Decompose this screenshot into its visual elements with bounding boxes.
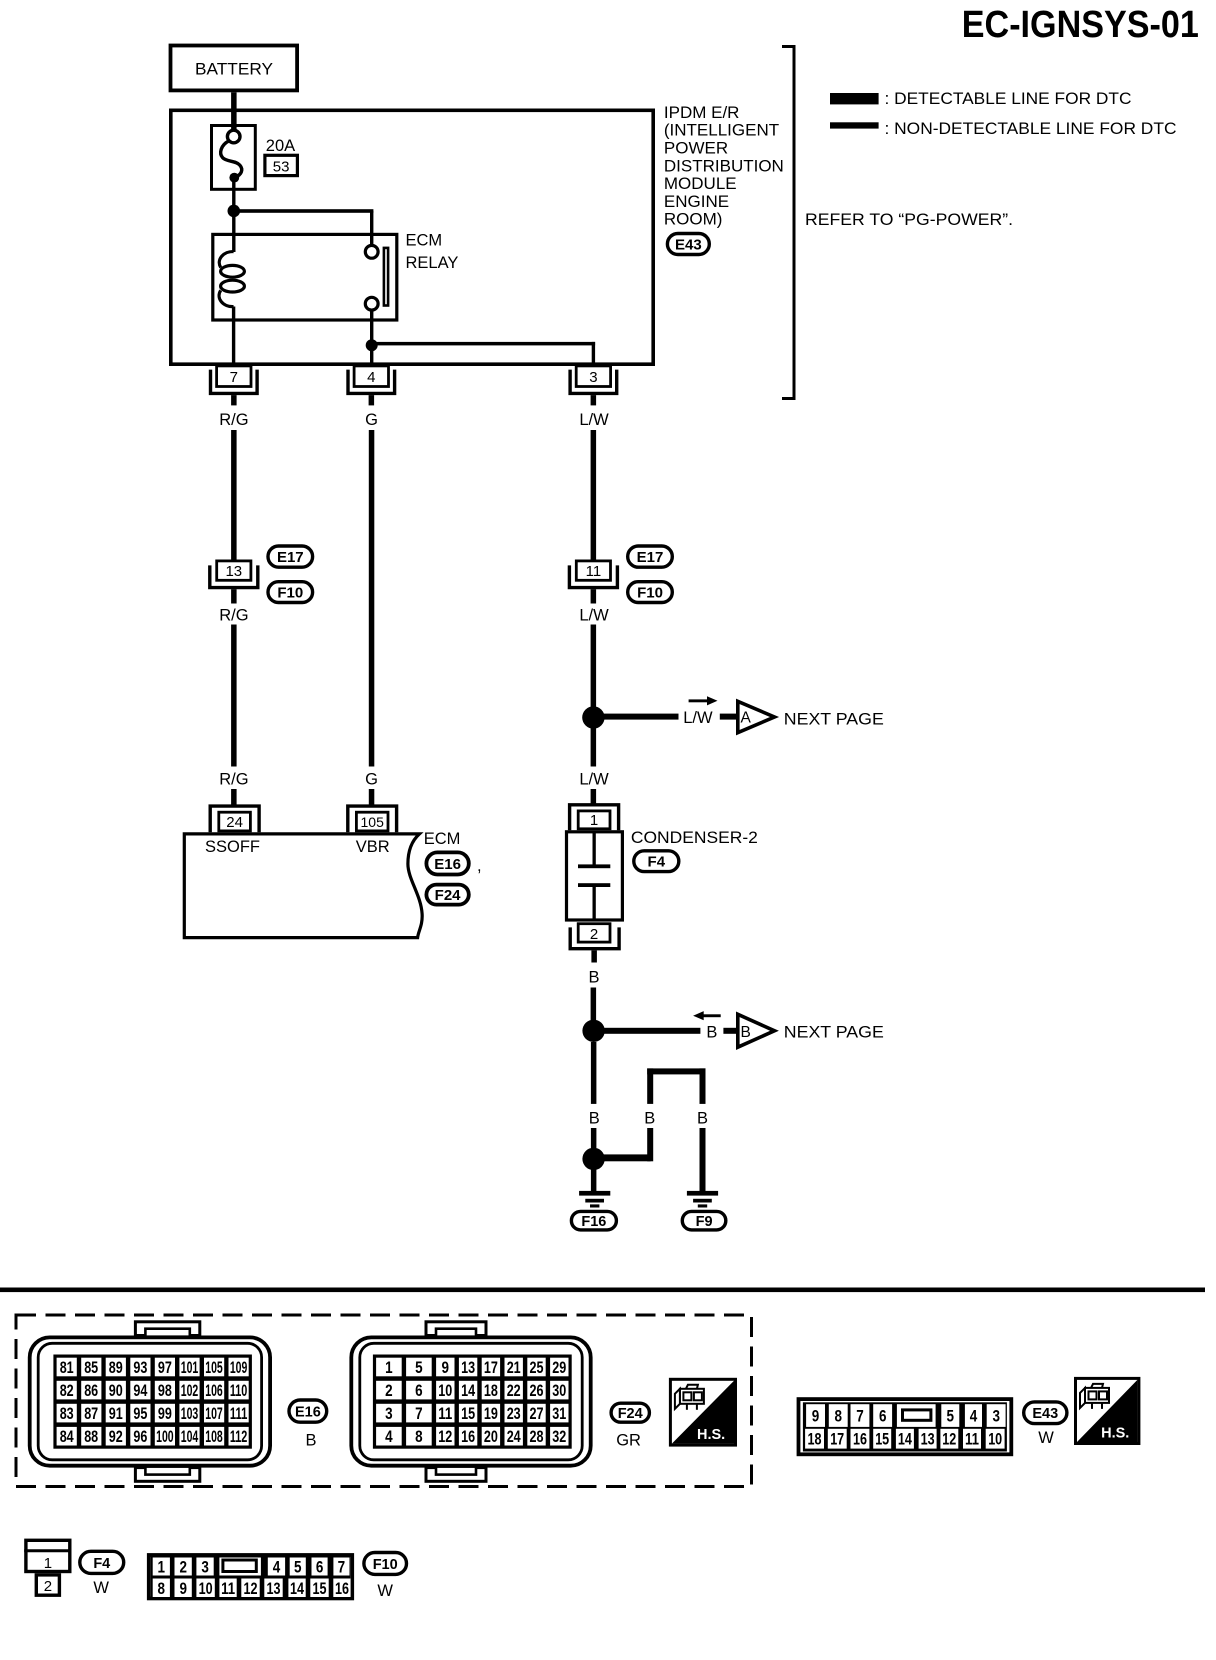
arrow A next page triangle <box>738 701 775 732</box>
connector F9 oval (ground) <box>682 1211 726 1230</box>
svg-text:4: 4 <box>273 1558 281 1577</box>
svg-text:21: 21 <box>507 1358 521 1377</box>
svg-text:F4: F4 <box>93 1556 110 1572</box>
svg-text:95: 95 <box>133 1404 147 1423</box>
wire G pin4 to label (long) <box>369 430 375 767</box>
wire fuse to node J1 <box>232 180 235 211</box>
svg-text:28: 28 <box>530 1427 544 1446</box>
svg-text:REFER TO “PG-POWER”.: REFER TO “PG-POWER”. <box>805 211 1013 229</box>
svg-text:30: 30 <box>552 1381 566 1400</box>
svg-text:F24: F24 <box>435 887 462 904</box>
svg-text:25: 25 <box>530 1358 544 1377</box>
svg-text:24: 24 <box>507 1427 521 1446</box>
connector E43 face (IPDM 18-pin) <box>799 1399 1012 1454</box>
svg-text:27: 27 <box>530 1404 544 1423</box>
connector F10 oval (right) <box>628 582 673 603</box>
node J2 junction dot <box>366 339 378 351</box>
svg-text:9: 9 <box>442 1358 450 1377</box>
svg-text:B: B <box>741 1024 751 1041</box>
svg-text:8: 8 <box>834 1407 842 1426</box>
svg-text:31: 31 <box>552 1404 566 1423</box>
node B junction dot <box>582 1020 604 1042</box>
svg-text:9: 9 <box>812 1407 820 1426</box>
svg-text:13: 13 <box>461 1358 475 1377</box>
pin 7 of IPDM (terminal 7) <box>211 366 258 406</box>
svg-text:1: 1 <box>158 1558 166 1577</box>
relay contact bottom circle <box>365 297 378 310</box>
label IPDM E/R (INTELLIGENT POWER DISTRIBUTION MODULE ENGINE ROOM) <box>664 103 784 229</box>
svg-text:112: 112 <box>230 1427 248 1446</box>
wire J1 to relay contact (horizontal) <box>234 209 374 213</box>
svg-text:F16: F16 <box>581 1214 606 1230</box>
wire stub to arrow A <box>720 714 736 720</box>
svg-text:EC-IGNSYS-01: EC-IGNSYS-01 <box>962 4 1199 46</box>
svg-text:F10: F10 <box>373 1557 398 1573</box>
connector F4 oval (condenser) <box>634 851 679 872</box>
arrow B next page triangle <box>738 1014 775 1047</box>
connector E43 oval (IPDM) <box>667 234 709 255</box>
svg-text:11: 11 <box>965 1430 979 1449</box>
ground F16 symbol <box>579 1191 610 1196</box>
svg-text:NEXT PAGE: NEXT PAGE <box>784 711 884 729</box>
bracket IPDM E/R span <box>782 47 794 399</box>
arrow over L/W (direction) <box>689 699 710 702</box>
wire R/G connector 13 to ECM pin 24 <box>231 625 237 767</box>
wire L/W to condenser pin 1 stub <box>591 789 597 804</box>
connector E17 oval (left) <box>268 546 313 567</box>
connector 11 inline (wire L/W) <box>569 561 617 588</box>
svg-text:E16: E16 <box>295 1405 321 1421</box>
svg-text:107: 107 <box>205 1404 223 1423</box>
svg-text:3: 3 <box>385 1404 393 1423</box>
svg-text:F4: F4 <box>648 854 666 871</box>
legend non-detectable line swatch <box>830 122 879 128</box>
svg-text:109: 109 <box>230 1358 248 1377</box>
svg-text:7: 7 <box>415 1404 423 1423</box>
svg-text:15: 15 <box>461 1404 475 1423</box>
connector F24 oval (ECM) <box>426 885 468 905</box>
svg-text:B: B <box>589 1110 600 1128</box>
svg-text:DISTRIBUTION: DISTRIBUTION <box>664 156 784 175</box>
svg-text:106: 106 <box>205 1381 223 1400</box>
wire relay coil to pin 7 <box>232 307 235 367</box>
svg-text:29: 29 <box>552 1358 566 1377</box>
svg-text:81: 81 <box>60 1358 74 1377</box>
ground F9 symbol <box>687 1191 718 1196</box>
svg-text:1: 1 <box>385 1358 393 1377</box>
svg-text:W: W <box>93 1579 109 1597</box>
svg-text:6: 6 <box>879 1407 887 1426</box>
svg-text:E43: E43 <box>675 236 702 253</box>
node C junction dot <box>582 1148 604 1170</box>
svg-text:H.S.: H.S. <box>697 1427 725 1443</box>
svg-text:4: 4 <box>970 1407 978 1426</box>
svg-text:A: A <box>741 710 752 727</box>
svg-text:NEXT PAGE: NEXT PAGE <box>784 1024 884 1042</box>
svg-text:14: 14 <box>898 1430 912 1449</box>
svg-text:12: 12 <box>438 1427 452 1446</box>
svg-text:ECM: ECM <box>424 830 461 848</box>
svg-text:85: 85 <box>84 1358 98 1377</box>
box ECM (torn right edge) <box>184 834 422 938</box>
svg-text:14: 14 <box>290 1579 304 1598</box>
svg-text:32: 32 <box>552 1427 566 1446</box>
svg-text:83: 83 <box>60 1404 74 1423</box>
svg-text:2: 2 <box>179 1558 187 1577</box>
wire node C to ground F16 <box>591 1159 597 1192</box>
svg-text:W: W <box>377 1582 393 1600</box>
svg-text:1: 1 <box>44 1555 52 1572</box>
connector E16 oval (ECM) <box>426 852 468 874</box>
wire node A to label L/W (horizontal) <box>593 714 678 720</box>
wire J2 to pin 4 <box>370 345 373 366</box>
wire B condenser to node B <box>591 988 597 1031</box>
svg-text:E17: E17 <box>277 549 304 566</box>
svg-text:ENGINE: ENGINE <box>664 192 729 211</box>
relay coil <box>219 252 233 268</box>
svg-text:L/W: L/W <box>579 771 609 789</box>
svg-text:26: 26 <box>530 1381 544 1400</box>
connector F4 face (condenser 2-pin) <box>26 1540 70 1571</box>
pin 1 of condenser-2 <box>570 805 619 830</box>
pin 4 of IPDM (terminal 4) <box>348 366 395 406</box>
svg-text:POWER: POWER <box>664 139 728 158</box>
svg-text:101: 101 <box>181 1358 199 1377</box>
svg-text:2: 2 <box>590 926 598 943</box>
connector E43 oval (view) <box>1024 1402 1067 1424</box>
wire G to pin 105 stub <box>369 789 375 805</box>
svg-text:17: 17 <box>830 1430 844 1449</box>
svg-text:F10: F10 <box>637 585 663 602</box>
svg-text:16: 16 <box>335 1579 349 1598</box>
connector 13 inline (wire R/G) <box>210 561 258 588</box>
wire J2 to pin 3 (horizontal) <box>372 342 595 346</box>
svg-text:8: 8 <box>415 1427 423 1446</box>
svg-text:5: 5 <box>947 1407 955 1426</box>
svg-text:B: B <box>706 1024 717 1042</box>
wire stub to arrow B <box>723 1028 736 1034</box>
svg-text:: DETECTABLE LINE FOR DTC: : DETECTABLE LINE FOR DTC <box>885 90 1132 108</box>
svg-text:110: 110 <box>230 1381 248 1400</box>
svg-text:82: 82 <box>60 1381 74 1400</box>
svg-text:7: 7 <box>230 369 238 386</box>
svg-text:IPDM E/R: IPDM E/R <box>664 103 740 122</box>
connector E16 oval (view) <box>289 1400 327 1422</box>
svg-text:F24: F24 <box>618 1406 643 1422</box>
relay movable contact bar <box>384 248 388 306</box>
relay contact top circle <box>365 245 378 258</box>
connector F24 oval (view) <box>611 1403 649 1422</box>
svg-text:111: 111 <box>230 1404 248 1423</box>
svg-text:B: B <box>697 1110 708 1128</box>
pin 24 of ECM (SSOFF) <box>210 806 259 832</box>
svg-text:15: 15 <box>875 1430 889 1449</box>
svg-text:E16: E16 <box>434 856 461 873</box>
svg-text:96: 96 <box>133 1427 147 1446</box>
svg-text:18: 18 <box>808 1430 822 1449</box>
svg-text:93: 93 <box>133 1358 147 1377</box>
legend detectable line swatch <box>830 93 879 104</box>
wire relay contact to node J2 <box>370 310 373 345</box>
fuse number 53 box <box>265 155 298 175</box>
svg-text:R/G: R/G <box>219 607 248 625</box>
svg-text:53: 53 <box>273 159 290 176</box>
svg-text:H.S.: H.S. <box>1101 1426 1129 1442</box>
svg-text:G: G <box>365 411 378 429</box>
svg-text:14: 14 <box>461 1381 475 1400</box>
svg-text:F10: F10 <box>277 585 303 602</box>
wire R/G below connector 13 stub <box>231 589 237 603</box>
svg-text:12: 12 <box>244 1579 258 1598</box>
svg-text:10: 10 <box>199 1579 213 1598</box>
svg-text:11: 11 <box>438 1404 452 1423</box>
svg-text:108: 108 <box>205 1427 223 1446</box>
svg-text:4: 4 <box>367 369 375 386</box>
icon H.S. (left) <box>670 1379 735 1445</box>
connector E16 face (ECM 81-112) <box>30 1322 270 1481</box>
svg-text:ECM: ECM <box>406 232 443 250</box>
svg-text:23: 23 <box>507 1404 521 1423</box>
svg-text:13: 13 <box>267 1579 281 1598</box>
wire down to relay contact pin <box>370 211 373 246</box>
node J1 junction dot <box>228 205 241 218</box>
svg-text:22: 22 <box>507 1381 521 1400</box>
svg-text:BATTERY: BATTERY <box>195 60 273 78</box>
svg-text:6: 6 <box>415 1381 423 1400</box>
svg-text:3: 3 <box>589 369 597 386</box>
svg-text:10: 10 <box>438 1381 452 1400</box>
connector F24 face (ECM 1-32) <box>351 1322 590 1481</box>
branch loop wire (inverted U) <box>647 1068 705 1074</box>
svg-text:86: 86 <box>84 1381 98 1400</box>
svg-text:B: B <box>305 1432 316 1450</box>
wire B left to node C <box>591 1128 597 1159</box>
svg-text:13: 13 <box>921 1430 935 1449</box>
svg-text:24: 24 <box>226 814 243 831</box>
svg-text:2: 2 <box>44 1578 52 1595</box>
wire condenser pin2 stub <box>591 950 597 962</box>
svg-text:12: 12 <box>942 1430 956 1449</box>
wire down to pin 3 <box>592 342 595 366</box>
svg-text:1: 1 <box>590 812 598 829</box>
svg-text:97: 97 <box>158 1358 172 1377</box>
svg-text:CONDENSER-2: CONDENSER-2 <box>631 829 758 847</box>
wire R/G pin7 to connector 13 <box>231 430 237 560</box>
pin 2 of condenser-2 <box>578 924 610 942</box>
wire B middle to node C horizontal <box>647 1128 653 1161</box>
fuse element symbol <box>227 130 240 143</box>
svg-text:20A: 20A <box>266 137 295 155</box>
svg-text:L/W: L/W <box>683 709 713 727</box>
relay ECM RELAY box <box>213 234 397 320</box>
svg-text:7: 7 <box>338 1558 346 1577</box>
pin 3 of IPDM (terminal 3) <box>570 366 617 406</box>
svg-text:105: 105 <box>361 814 385 830</box>
svg-text:11: 11 <box>586 563 602 580</box>
svg-text:103: 103 <box>181 1404 199 1423</box>
svg-text:R/G: R/G <box>219 771 248 789</box>
svg-text:88: 88 <box>84 1427 98 1446</box>
svg-text:91: 91 <box>109 1404 123 1423</box>
battery B1 <box>171 46 298 91</box>
svg-text:102: 102 <box>181 1381 199 1400</box>
box IPDM E/R <box>171 110 653 364</box>
svg-text:8: 8 <box>158 1579 166 1598</box>
svg-text:E43: E43 <box>1032 1406 1058 1422</box>
svg-text:5: 5 <box>294 1558 302 1577</box>
wire L/W connector 11 to node A <box>591 625 597 767</box>
svg-text:3: 3 <box>992 1407 1000 1426</box>
connector F10 oval (left) <box>268 582 313 603</box>
connector F16 oval (ground) <box>571 1211 616 1230</box>
svg-text:MODULE: MODULE <box>664 174 737 193</box>
wire battery to IPDM fuse <box>231 92 237 130</box>
svg-text:94: 94 <box>133 1381 147 1400</box>
svg-text:B: B <box>588 969 599 987</box>
arrow over B (direction, left) <box>700 1014 721 1017</box>
svg-text:: NON-DETECTABLE LINE FOR DTC: : NON-DETECTABLE LINE FOR DTC <box>885 120 1177 138</box>
svg-text:E17: E17 <box>637 549 664 566</box>
svg-text:(INTELLIGENT: (INTELLIGENT <box>664 121 779 140</box>
svg-text:SSOFF: SSOFF <box>205 838 260 856</box>
svg-text:17: 17 <box>484 1358 498 1377</box>
wire R/G to pin 24 stub <box>231 789 237 805</box>
separator line <box>0 1288 1205 1293</box>
svg-text:F9: F9 <box>696 1214 713 1230</box>
svg-text:10: 10 <box>988 1430 1002 1449</box>
svg-text:B: B <box>644 1110 655 1128</box>
capacitor CONDENSER-2 box <box>567 832 623 920</box>
wire B right to ground F9 <box>700 1128 706 1192</box>
svg-text:84: 84 <box>60 1427 74 1446</box>
svg-text:16: 16 <box>461 1427 475 1446</box>
svg-text:87: 87 <box>84 1404 98 1423</box>
wire L/W below connector 11 stub <box>591 589 597 603</box>
svg-text:6: 6 <box>316 1558 324 1577</box>
connector F10 face (16-pin) <box>149 1555 352 1598</box>
svg-text:99: 99 <box>158 1404 172 1423</box>
svg-text:89: 89 <box>109 1358 123 1377</box>
svg-text:G: G <box>365 771 378 789</box>
svg-text:90: 90 <box>109 1381 123 1400</box>
svg-text:5: 5 <box>415 1358 423 1377</box>
svg-text:,: , <box>477 857 482 875</box>
wire node B down <box>591 1042 597 1104</box>
svg-text:L/W: L/W <box>579 411 609 429</box>
svg-text:3: 3 <box>201 1558 209 1577</box>
svg-text:ROOM): ROOM) <box>664 210 723 229</box>
svg-text:W: W <box>1038 1429 1054 1447</box>
wire L/W pin3 to connector 11 <box>591 430 597 560</box>
svg-text:104: 104 <box>181 1427 199 1446</box>
svg-text:92: 92 <box>109 1427 123 1446</box>
connector E17 oval (right) <box>628 546 673 567</box>
svg-text:20: 20 <box>484 1427 498 1446</box>
svg-text:R/G: R/G <box>219 411 248 429</box>
svg-text:9: 9 <box>179 1579 187 1598</box>
svg-text:19: 19 <box>484 1404 498 1423</box>
svg-text:11: 11 <box>221 1579 235 1598</box>
svg-text:VBR: VBR <box>356 838 390 856</box>
svg-text:98: 98 <box>158 1381 172 1400</box>
node A junction dot <box>582 706 604 728</box>
svg-text:L/W: L/W <box>579 607 609 625</box>
dashed box connector views <box>16 1315 752 1487</box>
svg-text:7: 7 <box>856 1407 864 1426</box>
svg-text:GR: GR <box>616 1432 641 1450</box>
svg-text:2: 2 <box>385 1381 393 1400</box>
capacitor plates symbol <box>593 831 596 865</box>
svg-text:4: 4 <box>385 1427 393 1446</box>
svg-text:15: 15 <box>313 1579 327 1598</box>
wire node B to label B (horizontal) <box>594 1028 701 1034</box>
svg-text:100: 100 <box>156 1427 174 1446</box>
svg-text:13: 13 <box>225 563 242 580</box>
icon H.S. (right) <box>1076 1378 1139 1443</box>
connector F10 oval (view) <box>364 1553 407 1575</box>
svg-text:16: 16 <box>853 1430 867 1449</box>
connector F4 oval (view) <box>80 1551 124 1573</box>
pin 105 of ECM (VBR) <box>348 806 397 832</box>
svg-text:RELAY: RELAY <box>406 254 459 272</box>
fuse F 20A/53 box <box>212 126 256 190</box>
svg-text:18: 18 <box>484 1381 498 1400</box>
wire J1 down to relay coil <box>232 211 235 252</box>
svg-text:105: 105 <box>205 1358 223 1377</box>
